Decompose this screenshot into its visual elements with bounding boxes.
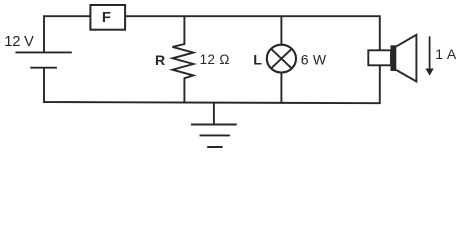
svg-text:1 A: 1 A xyxy=(435,46,457,62)
svg-text:F: F xyxy=(102,10,111,26)
svg-text:12 V: 12 V xyxy=(4,34,34,50)
svg-text:12 Ω: 12 Ω xyxy=(200,52,230,67)
svg-text:L: L xyxy=(253,52,262,68)
svg-text:R: R xyxy=(155,52,165,68)
svg-text:6 W: 6 W xyxy=(301,51,327,67)
